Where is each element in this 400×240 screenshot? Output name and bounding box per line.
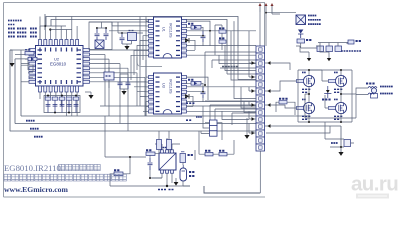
wire input section [301, 43, 318, 48]
transistor Q3 MOSFET [302, 99, 315, 113]
capacitor C aux [148, 158, 153, 170]
resistor Rg1 [297, 79, 304, 82]
note text bridge [308, 16, 321, 25]
IC U3 IR2110S body [154, 73, 182, 114]
wire U6 bottom wires [152, 173, 172, 186]
wire U2 right drops [105, 55, 145, 132]
wire U3 right wires [185, 77, 256, 111]
IC U1 IR2110S body [154, 17, 182, 58]
wire xtal top [97, 22, 106, 28]
wire snub loop [276, 102, 295, 115]
note text under Q 341 108 [334, 116, 342, 119]
ground reg [122, 41, 132, 50]
wire U2 left pin wires [10, 50, 33, 82]
diode D bootstrap U1 [188, 24, 201, 29]
svg-text:au.ru: au.ru [351, 173, 398, 196]
resistor Rg3 [297, 106, 304, 109]
wire gray bus curve [137, 57, 162, 67]
wire gate 2 feed [310, 70, 329, 108]
U6 pins top [161, 150, 174, 153]
wire bridge bottom rail [298, 114, 352, 123]
resistor R u3bot2 [167, 140, 172, 150]
wire outer frame left [3, 3, 5, 198]
U3 inner pin labels [156, 77, 181, 111]
wire strip left feeds2 [205, 101, 256, 130]
wire outer frame bottom [4, 196, 266, 198]
crystal X1 [95, 40, 104, 49]
note text EMI [341, 50, 361, 52]
diode D2 U3 [185, 94, 189, 99]
wire outer bus top [4, 3, 265, 47]
capacitor C xtal2 [104, 27, 109, 40]
U2 left pins [29, 49, 36, 84]
wire U2 right pin wires [90, 50, 151, 82]
wire left feeder C [9, 50, 11, 131]
note table text top-left [8, 21, 37, 37]
transistor Q2 MOSFET [334, 72, 347, 86]
node bridge feed arrows [307, 52, 331, 61]
watermark au.ru [351, 173, 398, 199]
battery BT1 [180, 165, 194, 181]
capacitor C mid2 [219, 38, 226, 43]
resistor R left of U2 [25, 50, 34, 55]
wire reg verticals [89, 17, 150, 117]
wire bus rail 4 [10, 130, 262, 132]
wire bridge top rail [298, 69, 352, 122]
wire bus rail 1 [100, 105, 262, 107]
resistor Rg4 [329, 106, 336, 109]
connector J2 mini [210, 120, 218, 136]
capacitor C snub right [279, 99, 288, 104]
node AC line arrows [259, 3, 297, 46]
wire u3bot [159, 131, 169, 153]
wire strip to bridge 1 [273, 63, 290, 70]
capacitor C bootstrap U3 [201, 87, 206, 98]
diode D left of U2 [28, 57, 37, 60]
wire staircase to strip [219, 21, 257, 119]
net label rail 4 [30, 128, 39, 130]
capacitor CX1 [326, 46, 333, 52]
wire bridge feed loops [296, 46, 329, 52]
U1 inner pin labels [156, 21, 181, 55]
connector output CT1 [371, 88, 378, 98]
relay K1 mid [104, 72, 114, 80]
wire xtal loop [89, 22, 112, 50]
transistor Q1 MOSFET [302, 72, 315, 86]
capacitor input [297, 39, 311, 43]
wire left feeder B [14, 59, 16, 124]
capacitor C elec aux [180, 152, 193, 163]
ground left of U2 [9, 59, 14, 67]
wire strip feeds [249, 31, 253, 133]
net label SPWM bus [222, 66, 238, 68]
capacitor C mid4 [126, 78, 131, 89]
ground below U2 [85, 92, 94, 99]
ground aux [174, 178, 179, 186]
diode zener input [298, 25, 303, 39]
IC U6 optocoupler body [159, 148, 176, 171]
U6 pins bottom [161, 170, 174, 173]
capacitor C mid3 [118, 78, 123, 89]
ground mid2 [120, 89, 128, 95]
wire output line2 [368, 93, 374, 95]
wire J2 feeds [201, 106, 222, 140]
net label strip feeds [186, 103, 194, 120]
wire bot row [199, 131, 234, 154]
U2 inner pin labels [38, 48, 82, 85]
note text under U6 [158, 189, 174, 191]
resistor R u3bot1 [157, 140, 162, 150]
wire reg link [118, 22, 143, 33]
diode D bootstrap U3 [188, 80, 201, 85]
wire under-bridge link [266, 126, 330, 133]
note text load2 [380, 93, 393, 95]
U1 left pins [149, 20, 154, 58]
ground mid [244, 118, 249, 139]
note text J2 [196, 116, 202, 118]
resistor R aux [146, 150, 155, 155]
wire mid comp links [109, 67, 128, 88]
regulator U5 body [128, 31, 137, 41]
net label BUS- [331, 140, 351, 147]
wire U3 left wires [131, 60, 149, 116]
junction aux [166, 185, 168, 187]
wire EMI rail [318, 43, 350, 47]
title line 1: EG8010.IR2110 + CJK [4, 163, 100, 173]
node strip arrows left [249, 61, 256, 135]
resistor R bot1 [205, 151, 213, 156]
wire strip bottom drop [259, 151, 261, 193]
svg-text:EG8010.IR2110: EG8010.IR2110 [4, 163, 62, 173]
wire battery net [183, 150, 195, 186]
wire bus rail 2 [21, 115, 310, 117]
wire U2 top pin wires [40, 17, 77, 40]
wire top rail VCC [46, 17, 238, 49]
wire caps loop [44, 96, 80, 113]
IC U2 EG8010 body [36, 46, 84, 87]
capacitor C xtal1 [95, 27, 100, 40]
capacitor bank under U2 [45, 95, 79, 114]
wire mid verticals [215, 25, 222, 55]
wire left drop from rail [44, 14, 46, 30]
junction node U2 top [44, 25, 51, 31]
wire mid cross [204, 48, 256, 86]
U3 right pins [182, 76, 187, 114]
net label rail 5 [34, 136, 43, 138]
diode D2 U1 [185, 38, 189, 43]
title line 3: www.EGmicro.com [4, 185, 69, 194]
capacitor C reg [120, 32, 125, 44]
svg-text:IR2110S: IR2110S [169, 79, 173, 94]
wire bus rail 3 [15, 123, 262, 125]
varistor RV1 [317, 46, 324, 52]
wire bottom bus loop [204, 186, 260, 193]
inductor L output1 [366, 84, 377, 89]
wire output lines [305, 88, 368, 118]
ground bridge bottom [338, 126, 343, 156]
U2 top pins [39, 40, 79, 46]
note text load1 [380, 86, 393, 88]
node strip arrows right [265, 61, 273, 128]
wire aux net [105, 116, 190, 186]
wire rail 2nd [51, 20, 227, 51]
wire strip to bridge 2 [273, 81, 297, 91]
svg-text:EG8010: EG8010 [50, 62, 67, 67]
svg-text:U1: U1 [162, 27, 166, 32]
wire bus bottom link [325, 122, 354, 147]
note text under Q 309 108 [302, 116, 310, 119]
wire U1 left wires [109, 17, 149, 81]
note text under Q 341 81 [334, 89, 342, 92]
note text under Q 309 81 [302, 89, 310, 92]
wire strip to bridge 3 [273, 105, 297, 108]
U1 right pins [182, 20, 187, 58]
transistor Q4 MOSFET [334, 99, 347, 113]
net label rail 3 [26, 120, 35, 122]
diode D mid bridge [322, 86, 331, 100]
capacitor C bot2 [219, 151, 227, 156]
resistor R aux2 [114, 170, 123, 175]
U2 bottom pins [39, 86, 79, 92]
title line 2: CJK subtitle [4, 174, 126, 181]
capacitor CY top-right [348, 40, 361, 44]
wire left stub [10, 50, 33, 72]
wire strip to bridge 4 [273, 125, 341, 127]
svg-text:IR2110S: IR2110S [169, 23, 173, 38]
wire left feeder A [20, 65, 22, 116]
wire U1 right wires [185, 21, 256, 55]
connector J1 strip [256, 46, 265, 151]
resistor Rg2 [329, 79, 336, 82]
U2 right pins [83, 49, 90, 84]
fuse F1 [335, 46, 342, 52]
wire U2 bottom pin wires [40, 92, 77, 116]
bridge rectifier BR1 [296, 15, 306, 25]
wire U2 top link [40, 26, 72, 40]
capacitor C bootstrap U1 [201, 31, 206, 42]
capacitor C mid1 [219, 28, 226, 33]
wire U6 top wires [155, 138, 180, 150]
wire bridge mid nodes [305, 87, 345, 103]
U3 left pins [149, 76, 154, 114]
svg-text:U3: U3 [162, 83, 166, 88]
svg-text:www.EGmicro.com: www.EGmicro.com [4, 185, 69, 194]
